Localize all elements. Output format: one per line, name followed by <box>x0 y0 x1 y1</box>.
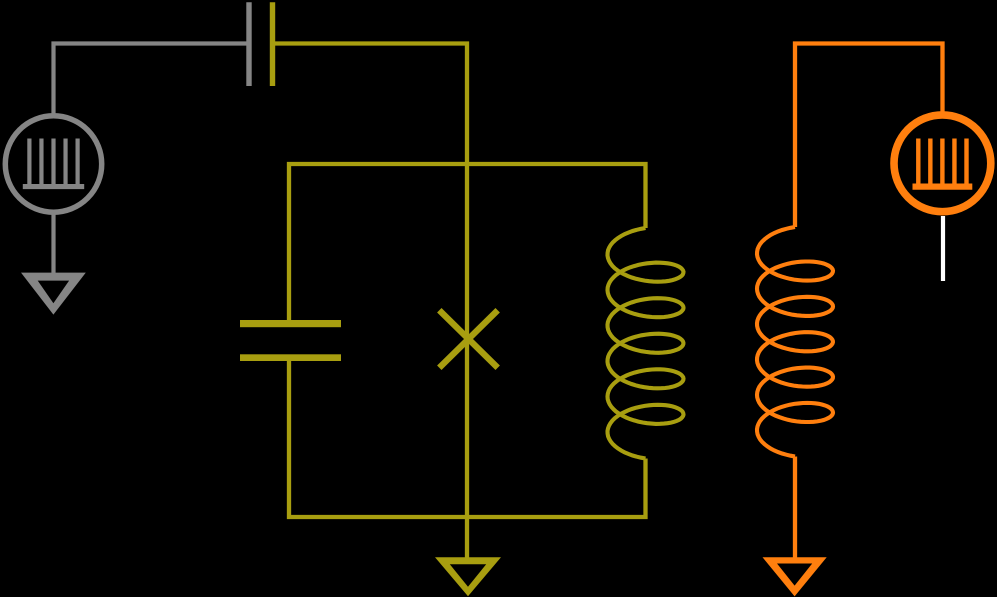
wire from coupling cap to qubit node <box>273 44 468 564</box>
ground (gray) <box>21 273 86 315</box>
drive source comb icon (gray) <box>27 139 31 185</box>
capacitor Cd plate left (gray) <box>246 2 251 86</box>
wire qubit loop right branch lower <box>467 459 646 518</box>
capacitor Cd plate right (olive) <box>270 2 275 86</box>
ground (olive) <box>435 557 501 596</box>
capacitor C plate top (olive) <box>240 320 341 327</box>
wire below gray source <box>51 212 55 282</box>
wire gray drive loop <box>54 44 250 117</box>
capacitor C plate bottom (olive) <box>240 354 341 361</box>
wire qubit loop left branch lower <box>289 361 467 517</box>
inductor L (olive coil) <box>608 228 684 459</box>
inductor Lr (orange coil) <box>757 227 833 457</box>
wire qubit loop left branch <box>289 164 467 320</box>
wire below orange coil <box>793 457 797 566</box>
wire orange readout left branch <box>795 44 943 228</box>
ground (orange) <box>763 557 827 596</box>
drive source circle U1 (gray) <box>5 116 101 212</box>
wire qubit loop right branch upper <box>467 164 646 228</box>
readout port circle U2 (orange) <box>894 115 991 212</box>
readout port comb icon (orange) <box>916 139 920 185</box>
white stub below orange port <box>941 216 945 281</box>
Josephson junction X <box>439 310 497 367</box>
